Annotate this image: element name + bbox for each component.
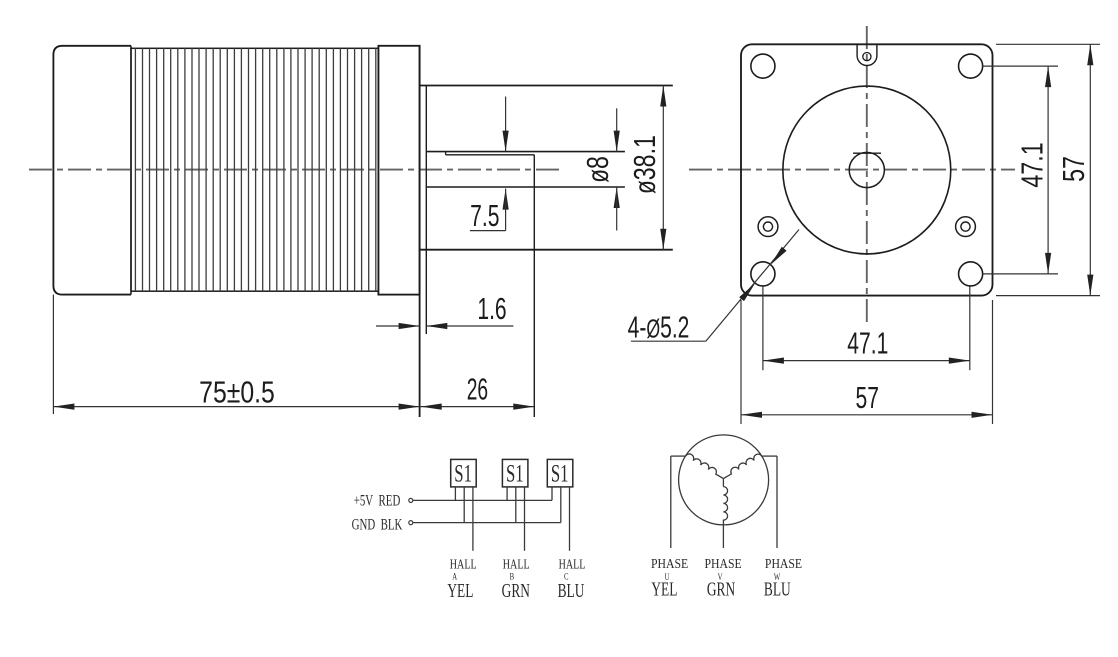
svg-text:S1: S1 bbox=[551, 459, 569, 487]
svg-text:PHASE: PHASE bbox=[705, 555, 742, 571]
svg-text:YEL: YEL bbox=[651, 578, 677, 600]
svg-text:GND BLK: GND BLK bbox=[352, 515, 403, 533]
svg-text:57: 57 bbox=[855, 380, 878, 415]
svg-text:HALL: HALL bbox=[559, 556, 586, 572]
svg-text:BLU: BLU bbox=[558, 580, 585, 602]
svg-text:HALL: HALL bbox=[503, 556, 530, 572]
svg-text:GRN: GRN bbox=[707, 578, 735, 600]
svg-text:ø8: ø8 bbox=[580, 156, 615, 183]
svg-text:75±0.5: 75±0.5 bbox=[199, 375, 275, 409]
svg-text:57: 57 bbox=[1056, 156, 1091, 182]
svg-text:26: 26 bbox=[467, 373, 488, 407]
svg-text:BLU: BLU bbox=[764, 578, 791, 600]
svg-text:ø38.1: ø38.1 bbox=[627, 135, 662, 194]
svg-text:PHASE: PHASE bbox=[765, 555, 802, 571]
svg-text:7.5: 7.5 bbox=[470, 198, 499, 233]
svg-text:+5V RED: +5V RED bbox=[354, 491, 401, 509]
svg-text:1.6: 1.6 bbox=[477, 291, 506, 326]
svg-text:S1: S1 bbox=[506, 459, 524, 487]
svg-text:47.1: 47.1 bbox=[847, 325, 888, 360]
svg-text:GRN: GRN bbox=[502, 580, 530, 602]
svg-text:HALL: HALL bbox=[450, 556, 477, 572]
svg-text:YEL: YEL bbox=[447, 580, 473, 602]
svg-text:47.1: 47.1 bbox=[1014, 142, 1049, 187]
svg-text:PHASE: PHASE bbox=[651, 555, 688, 571]
svg-text:4-Ø5.2: 4-Ø5.2 bbox=[628, 309, 690, 344]
svg-text:S1: S1 bbox=[454, 459, 472, 487]
